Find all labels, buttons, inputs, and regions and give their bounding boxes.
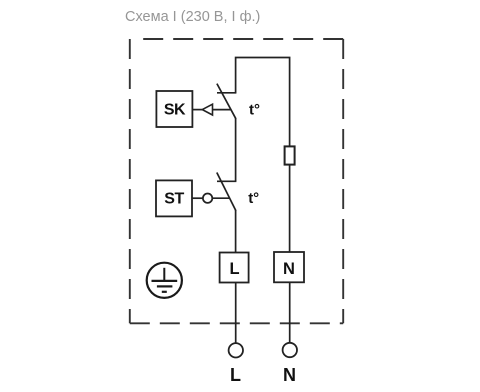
svg-text:L: L — [230, 365, 241, 385]
svg-text:Схема I (230 В, I ф.): Схема I (230 В, I ф.) — [125, 9, 260, 25]
svg-text:N: N — [283, 260, 295, 278]
svg-text:N: N — [283, 365, 296, 385]
svg-text:t°: t° — [249, 102, 260, 119]
svg-text:L: L — [229, 260, 239, 278]
svg-text:t°: t° — [248, 190, 259, 207]
svg-text:ST: ST — [164, 191, 184, 208]
svg-text:SK: SK — [164, 101, 186, 118]
